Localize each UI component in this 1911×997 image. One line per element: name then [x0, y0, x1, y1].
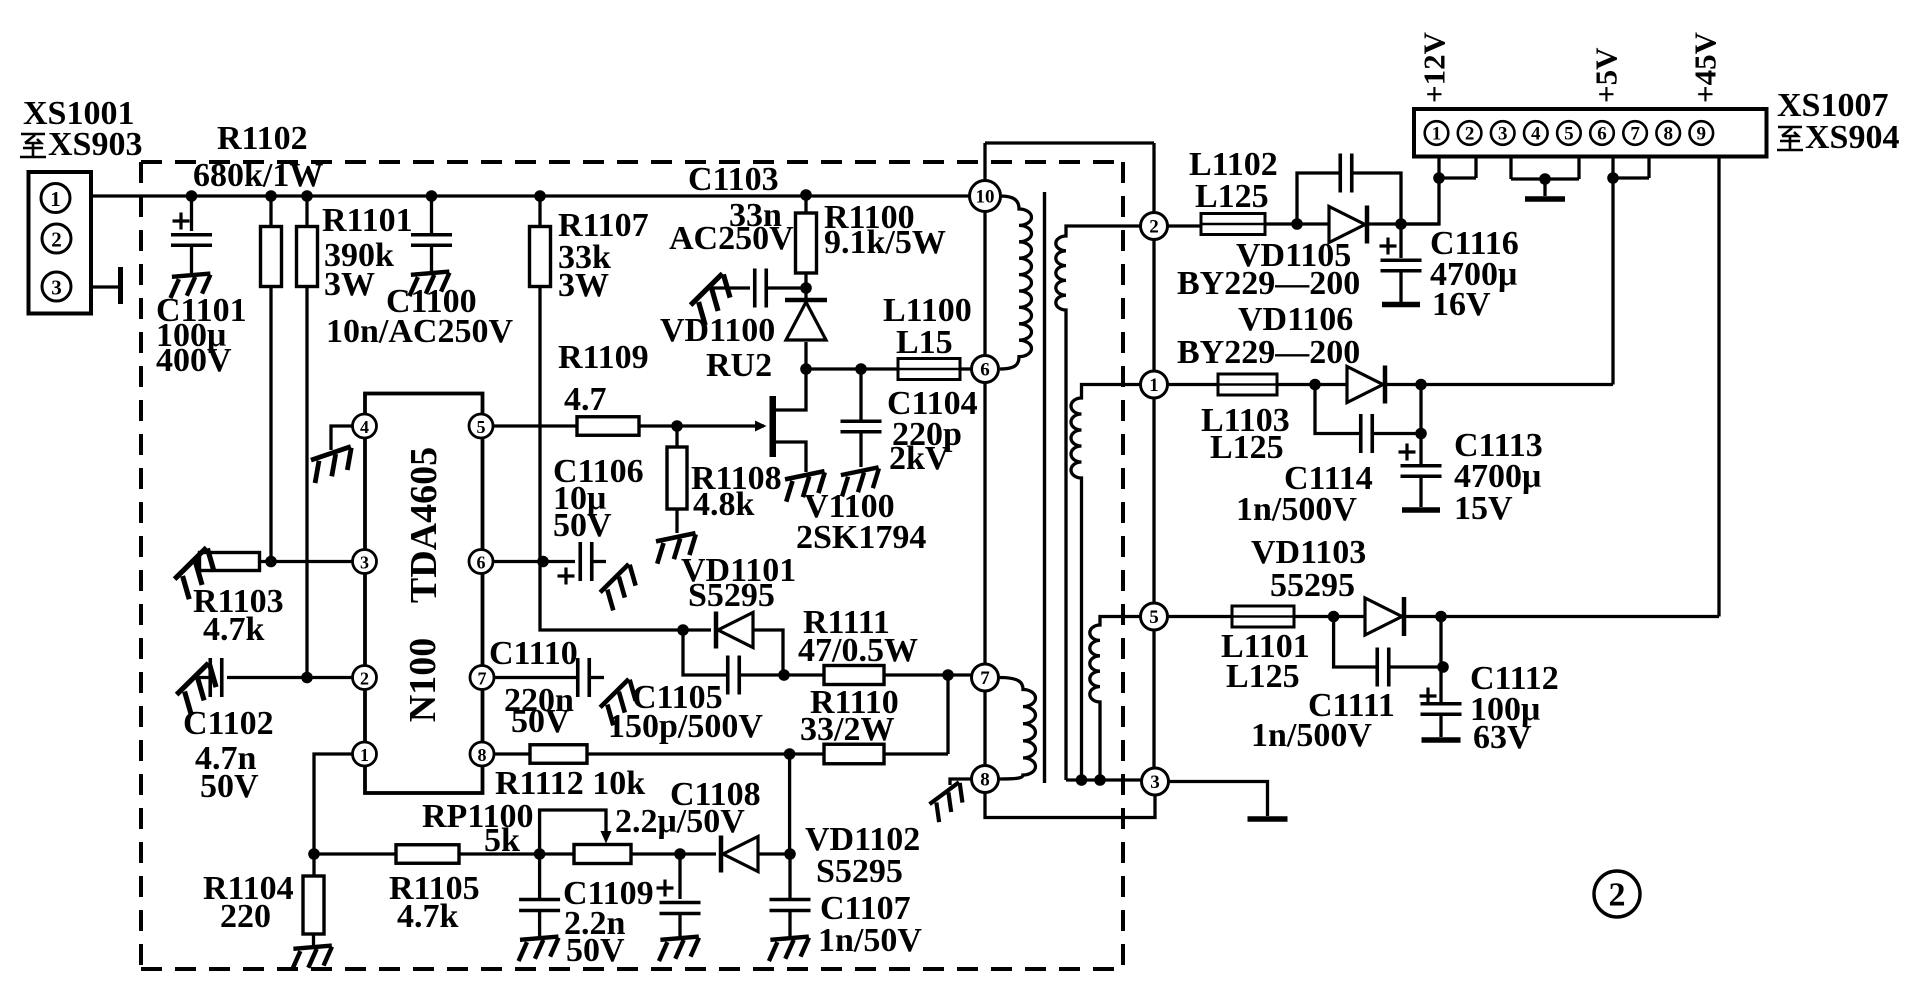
svg-text:5: 5 [1149, 607, 1159, 628]
svg-text:5: 5 [477, 417, 486, 437]
svg-text:55295: 55295 [1270, 567, 1355, 604]
svg-text:8: 8 [980, 770, 990, 791]
svg-text:2.2μ/50V: 2.2μ/50V [615, 803, 745, 840]
svg-text:C1103: C1103 [688, 161, 779, 198]
svg-text:1: 1 [1149, 375, 1159, 396]
svg-text:8: 8 [478, 745, 487, 765]
svg-text:3: 3 [360, 553, 369, 573]
svg-text:R1109: R1109 [558, 339, 649, 376]
svg-text:4: 4 [360, 417, 369, 437]
svg-text:9: 9 [1697, 124, 1707, 145]
svg-text:1: 1 [360, 745, 369, 765]
svg-text:RU2: RU2 [706, 347, 772, 384]
svg-text:5: 5 [1564, 124, 1574, 145]
svg-text:4.7: 4.7 [564, 381, 607, 418]
svg-text:47/0.5W: 47/0.5W [798, 632, 918, 669]
svg-text:VD1106: VD1106 [1238, 301, 1353, 338]
svg-text:6: 6 [1597, 124, 1607, 145]
svg-text:R1102: R1102 [217, 120, 308, 157]
svg-text:150p/500V: 150p/500V [608, 708, 763, 745]
svg-text:2: 2 [1465, 124, 1475, 145]
svg-text:3W: 3W [324, 266, 375, 303]
svg-text:+12V: +12V [1417, 31, 1452, 103]
svg-text:1n/50V: 1n/50V [818, 922, 922, 959]
svg-text:3W: 3W [558, 267, 609, 304]
svg-text:16V: 16V [1432, 286, 1491, 323]
svg-text:C1110: C1110 [489, 635, 578, 672]
svg-text:400V: 400V [156, 342, 232, 379]
svg-text:1n/500V: 1n/500V [1236, 491, 1357, 528]
svg-text:50V: 50V [200, 768, 259, 805]
svg-text:TDA4605: TDA4605 [403, 447, 445, 603]
svg-text:XS904: XS904 [1805, 119, 1899, 156]
svg-text:S5295: S5295 [688, 577, 775, 614]
svg-text:6: 6 [980, 360, 990, 381]
svg-text:50V: 50V [553, 507, 612, 544]
svg-text:6: 6 [477, 553, 486, 573]
svg-text:XS903: XS903 [48, 126, 142, 163]
svg-text:7: 7 [980, 668, 990, 689]
svg-text:AC250V: AC250V [669, 220, 794, 257]
svg-text:7: 7 [478, 669, 487, 689]
svg-text:L125: L125 [1226, 658, 1300, 695]
svg-text:BY229—200: BY229—200 [1177, 334, 1360, 371]
svg-text:BY229—200: BY229—200 [1177, 265, 1360, 302]
svg-text:4.7k: 4.7k [397, 898, 459, 935]
svg-text:1: 1 [1432, 124, 1442, 145]
svg-text:5k: 5k [484, 822, 520, 859]
svg-text:C1102: C1102 [183, 705, 274, 742]
svg-text:3: 3 [1150, 772, 1160, 793]
svg-text:+45V: +45V [1688, 31, 1723, 103]
svg-text:L125: L125 [1195, 178, 1269, 215]
svg-text:15V: 15V [1454, 490, 1513, 527]
svg-text:1n/500V: 1n/500V [1251, 717, 1372, 754]
svg-text:L125: L125 [1210, 429, 1284, 466]
svg-text:1: 1 [50, 187, 61, 211]
svg-text:R1101: R1101 [322, 202, 413, 239]
svg-text:3: 3 [1498, 124, 1508, 145]
svg-text:VD1103: VD1103 [1251, 534, 1366, 571]
svg-text:VD1100: VD1100 [660, 312, 775, 349]
svg-text:33/2W: 33/2W [800, 711, 894, 748]
svg-text:220: 220 [220, 898, 271, 935]
svg-text:50V: 50V [566, 932, 625, 969]
svg-text:+5V: +5V [1589, 47, 1624, 103]
svg-text:2SK1794: 2SK1794 [796, 519, 926, 556]
svg-text:10n/AC250V: 10n/AC250V [326, 313, 513, 350]
svg-text:4.7k: 4.7k [203, 611, 265, 648]
svg-text:50V: 50V [511, 703, 570, 740]
svg-text:7: 7 [1630, 124, 1640, 145]
svg-text:3: 3 [51, 276, 62, 300]
svg-text:2: 2 [1609, 877, 1626, 914]
svg-text:2: 2 [51, 228, 62, 252]
svg-text:2: 2 [360, 669, 369, 689]
svg-text:L15: L15 [896, 324, 953, 361]
svg-text:4: 4 [1531, 124, 1541, 145]
svg-text:R1112 10k: R1112 10k [495, 765, 645, 802]
svg-text:9.1k/5W: 9.1k/5W [824, 224, 946, 261]
svg-text:680k/1W: 680k/1W [193, 157, 323, 194]
svg-text:N100: N100 [402, 638, 444, 722]
svg-text:2: 2 [1149, 217, 1159, 238]
svg-text:2kV: 2kV [889, 440, 950, 477]
svg-text:63V: 63V [1473, 719, 1532, 756]
svg-text:S5295: S5295 [816, 853, 903, 890]
svg-text:10: 10 [976, 187, 995, 208]
svg-text:4.8k: 4.8k [693, 486, 755, 523]
svg-text:8: 8 [1663, 124, 1673, 145]
